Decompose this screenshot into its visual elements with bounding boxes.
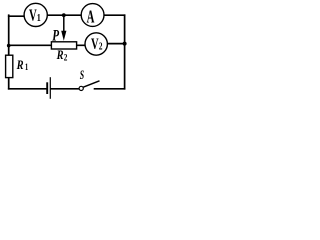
resistor R2 (rheostat box) [51, 42, 76, 49]
svg-text:A: A [87, 8, 95, 27]
voltmeter V2 [85, 33, 107, 55]
svg-text:P: P [52, 27, 59, 44]
node junction top wiper tap [62, 13, 66, 17]
node junction left middle [7, 44, 11, 48]
battery cell [47, 77, 50, 99]
resistor R1 [6, 55, 13, 77]
wire bottom [8, 88, 126, 90]
wire top main [30, 14, 125, 16]
label R2 [56, 48, 68, 63]
svg-text:V: V [91, 35, 99, 53]
svg-text:1: 1 [37, 12, 41, 24]
svg-text:2: 2 [99, 40, 103, 51]
node junction right middle [123, 42, 127, 46]
voltmeter V1 [24, 3, 47, 26]
svg-text:V: V [29, 7, 37, 25]
svg-text:1: 1 [25, 62, 28, 72]
wire right vertical [124, 14, 126, 89]
switch S [79, 81, 99, 91]
svg-text:R: R [16, 58, 24, 72]
wire top [8, 15, 34, 17]
svg-text:2: 2 [64, 53, 68, 63]
svg-text:S: S [80, 69, 85, 82]
ammeter A [81, 4, 104, 28]
wiper arrow P [61, 15, 66, 41]
wire left vertical [8, 14, 10, 89]
wire middle horizontal [9, 44, 96, 46]
label R1 [16, 58, 29, 72]
wire V2 to right rail [96, 43, 125, 45]
svg-text:R: R [56, 48, 64, 62]
